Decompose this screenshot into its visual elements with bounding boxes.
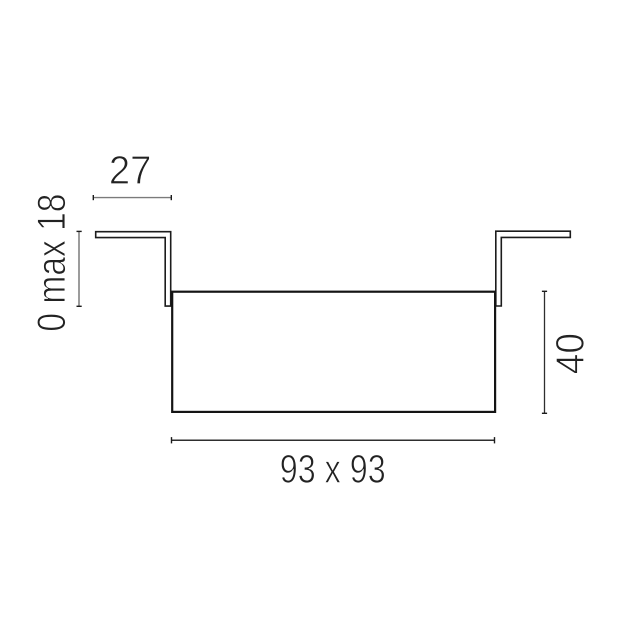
dimension line 93 x 93 (172, 437, 495, 443)
trim flange profile right (496, 231, 571, 306)
dimension line 27 (93, 195, 171, 200)
svg-text:93 x 93: 93 x 93 (280, 448, 386, 492)
housing box 93x93x40 (172, 292, 495, 412)
trim flange profile left (96, 232, 171, 306)
dimension line 0 max 18 (77, 231, 82, 306)
svg-text:40: 40 (549, 333, 593, 374)
dimension line 40 (542, 291, 547, 413)
svg-text:27: 27 (109, 149, 152, 193)
svg-text:0 max 18: 0 max 18 (30, 194, 74, 332)
